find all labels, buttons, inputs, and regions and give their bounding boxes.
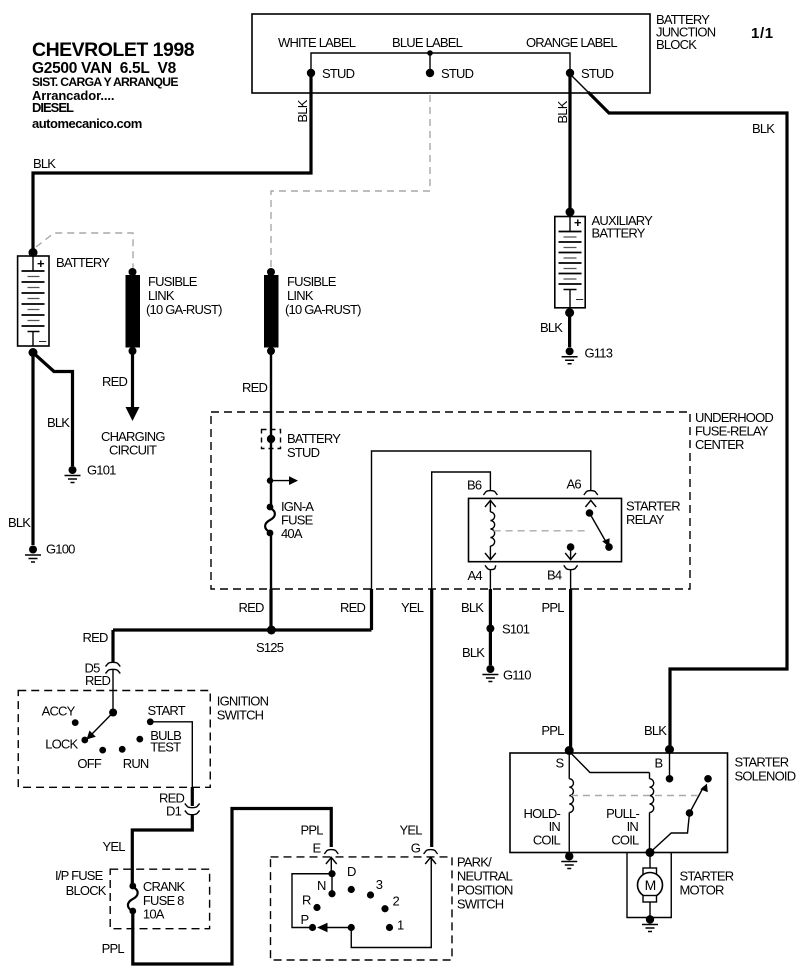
svg-text:N: N <box>317 878 326 893</box>
solenoid ground <box>561 852 577 868</box>
title text block <box>32 39 195 131</box>
starter motor enclosure <box>627 853 671 918</box>
ignition switch internals <box>42 670 186 772</box>
solenoid contact B <box>666 752 674 783</box>
wire from START contact <box>150 722 192 788</box>
svg-text:RED: RED <box>239 600 264 615</box>
svg-text:G101: G101 <box>87 463 116 478</box>
wire YEL relay B6 to park/neutral G <box>401 472 490 847</box>
terminal E <box>313 841 339 865</box>
svg-text:CENTER: CENTER <box>695 437 744 452</box>
svg-text:40A: 40A <box>281 526 303 541</box>
svg-text:R: R <box>302 893 311 908</box>
svg-text:RED: RED <box>102 374 127 389</box>
svg-text:D1: D1 <box>166 804 182 819</box>
svg-text:SWITCH: SWITCH <box>217 708 264 723</box>
wire RED to charging circuit with arrow <box>101 353 165 458</box>
svg-text:BLK: BLK <box>461 600 484 615</box>
svg-text:B: B <box>655 756 663 771</box>
svg-text:M: M <box>645 877 656 893</box>
wire BLK from orange stud to auxiliary battery <box>555 75 570 212</box>
underhood fuse-relay center box <box>211 410 773 589</box>
svg-text:RED: RED <box>242 380 267 395</box>
wire YEL D1 to crank fuse <box>103 815 193 884</box>
ground G101 <box>65 463 117 483</box>
wire RED ign-a fuse to S125 <box>239 534 272 630</box>
svg-text:PPL: PPL <box>541 723 564 738</box>
starter solenoid box <box>510 753 796 853</box>
gray dashed link battery to fusible link 1 <box>36 233 133 268</box>
wire BLK battery negative to G100 <box>8 348 38 545</box>
svg-text:B6: B6 <box>467 478 482 493</box>
park/neutral position switch box <box>271 855 514 961</box>
node B terminal <box>644 723 674 771</box>
svg-text:COIL: COIL <box>611 833 639 848</box>
wire RED relay A6 feed <box>340 451 591 630</box>
svg-text:BLK: BLK <box>752 121 775 136</box>
battery junction block <box>252 12 716 93</box>
svg-text:BLK: BLK <box>644 723 667 738</box>
svg-text:A4: A4 <box>468 568 483 583</box>
svg-text:RED: RED <box>340 600 365 615</box>
svg-text:STUD: STUD <box>441 66 474 81</box>
svg-text:COIL: COIL <box>533 833 561 848</box>
starter motor ground <box>642 915 658 931</box>
starter motor M <box>638 853 734 920</box>
terminal G <box>400 823 438 865</box>
fusible link 1 (10 GA-RUST) <box>126 268 223 355</box>
svg-text:E: E <box>313 841 322 856</box>
I/P fuse block box <box>55 868 210 929</box>
svg-text:BATTERY: BATTERY <box>592 226 646 241</box>
node blue label STUD <box>426 66 474 81</box>
svg-text:CRANK: CRANK <box>143 879 186 894</box>
svg-text:G100: G100 <box>46 542 75 557</box>
wire BLK battery negative branch to G101 <box>34 354 73 467</box>
splice S101 <box>486 622 529 637</box>
svg-text:RED: RED <box>83 630 108 645</box>
svg-text:MOTOR: MOTOR <box>680 883 725 898</box>
pull-in coil <box>569 752 654 853</box>
wire BLK relay A4 to S101 <box>461 570 490 628</box>
relay coil <box>485 500 496 559</box>
svg-text:PPL: PPL <box>542 600 565 615</box>
svg-text:CIRCUIT: CIRCUIT <box>109 443 157 458</box>
relay terminal A6 <box>567 477 598 507</box>
svg-text:PARK/: PARK/ <box>457 855 492 870</box>
splice S125 <box>83 626 372 656</box>
svg-text:BLK: BLK <box>8 515 31 530</box>
svg-text:YEL: YEL <box>103 839 126 854</box>
gray dashed link blue stud to fusible link 2 <box>271 95 430 268</box>
svg-text:STARTER: STARTER <box>680 869 734 884</box>
svg-text:(10 GA-RUST): (10 GA-RUST) <box>146 302 222 317</box>
svg-text:I/P FUSE: I/P FUSE <box>55 868 104 883</box>
svg-text:STUD: STUD <box>287 445 320 460</box>
battery stud connector <box>262 430 342 461</box>
svg-text:BLOCK: BLOCK <box>656 37 697 52</box>
svg-text:PPL: PPL <box>102 941 125 956</box>
svg-text:LOCK: LOCK <box>45 737 78 752</box>
battery B1 <box>18 248 111 348</box>
wire PPL crank fuse to park/neutral E <box>102 809 332 965</box>
svg-text:ORANGE LABEL: ORANGE LABEL <box>526 35 617 50</box>
svg-text:RELAY: RELAY <box>626 512 665 527</box>
svg-text:OFF: OFF <box>77 756 101 771</box>
svg-text:S: S <box>556 756 565 771</box>
svg-text:(10 GA-RUST): (10 GA-RUST) <box>285 302 361 317</box>
svg-text:D: D <box>347 864 356 879</box>
svg-text:SWITCH: SWITCH <box>457 897 504 912</box>
svg-text:BLK: BLK <box>295 99 310 122</box>
relay terminal A4 <box>468 565 496 583</box>
fusible link 2 (10 GA-RUST) <box>264 268 361 355</box>
wire BLK aux battery to G113 <box>540 308 574 347</box>
svg-text:BLK: BLK <box>555 100 570 123</box>
svg-text:RUN: RUN <box>123 756 149 771</box>
fuse IGN-A 40A <box>265 499 314 541</box>
connector D1 <box>159 787 200 819</box>
relay switch <box>586 509 613 551</box>
wire BLK from white stud to battery <box>33 75 311 250</box>
svg-text:WHITE LABEL: WHITE LABEL <box>278 35 356 50</box>
node white label STUD <box>307 66 355 81</box>
auxiliary battery <box>555 208 653 308</box>
svg-text:G: G <box>411 841 421 856</box>
svg-text:RED: RED <box>85 673 110 688</box>
connector D5 <box>85 630 121 688</box>
svg-text:LINK: LINK <box>148 288 175 303</box>
solenoid switch arm <box>650 775 712 853</box>
svg-text:LINK: LINK <box>287 288 314 303</box>
node S terminal <box>556 746 574 771</box>
park/neutral internals <box>292 857 431 947</box>
fuse CRANK FUSE 8 10A <box>128 879 186 922</box>
svg-text:1/1: 1/1 <box>751 25 774 42</box>
svg-text:ACCY: ACCY <box>42 704 76 719</box>
svg-text:10A: 10A <box>143 907 165 922</box>
svg-text:G110: G110 <box>503 668 531 683</box>
svg-text:PPL: PPL <box>301 823 324 838</box>
svg-text:BLOCK: BLOCK <box>66 883 107 898</box>
ground G100 <box>25 542 75 563</box>
svg-text:SOLENOID: SOLENOID <box>735 769 796 784</box>
svg-text:S125: S125 <box>256 640 284 655</box>
svg-text:2: 2 <box>393 894 400 909</box>
ground G113 <box>562 346 613 364</box>
wire BLK S101 to G110 <box>462 629 490 666</box>
svg-text:STUD: STUD <box>322 66 355 81</box>
node with arrow tap <box>267 476 298 485</box>
ground G110 <box>482 665 531 683</box>
svg-text:BLK: BLK <box>462 645 485 660</box>
relay terminal B4 <box>547 543 578 582</box>
svg-text:3: 3 <box>376 877 383 892</box>
svg-text:B4: B4 <box>547 568 562 583</box>
svg-text:BLK: BLK <box>540 320 563 335</box>
svg-text:BLK: BLK <box>47 415 70 430</box>
solenoid internal dashed link <box>571 795 698 797</box>
svg-text:DIESEL: DIESEL <box>32 100 74 115</box>
hold-in coil <box>524 753 574 853</box>
svg-text:YEL: YEL <box>400 823 423 838</box>
wire PPL relay B4 to solenoid S <box>541 570 570 750</box>
svg-text:P: P <box>301 912 309 927</box>
svg-text:1: 1 <box>397 918 404 933</box>
svg-text:automecanico.com: automecanico.com <box>32 116 142 131</box>
svg-text:BLK: BLK <box>33 156 56 171</box>
svg-text:S101: S101 <box>502 622 530 637</box>
node orange label STUD <box>566 66 614 81</box>
svg-text:POSITION: POSITION <box>457 883 513 898</box>
svg-text:IGNITION: IGNITION <box>217 694 269 709</box>
svg-text:BLUE LABEL: BLUE LABEL <box>392 35 463 50</box>
starter relay box <box>469 498 681 561</box>
relay terminal B6 <box>467 478 497 508</box>
svg-text:BATTERY: BATTERY <box>287 431 341 446</box>
svg-text:G113: G113 <box>585 346 613 361</box>
svg-text:FUSIBLE: FUSIBLE <box>287 274 337 289</box>
svg-text:YEL: YEL <box>401 600 424 615</box>
svg-text:START: START <box>148 703 186 718</box>
relay internal dashed link <box>494 530 585 532</box>
svg-text:NEUTRAL: NEUTRAL <box>457 869 513 884</box>
bus bar wire inside junction block <box>311 50 570 73</box>
svg-text:STUD: STUD <box>581 66 614 81</box>
svg-text:BATTERY: BATTERY <box>56 255 110 270</box>
wire RED fusible link 2 to battery stud <box>242 353 271 507</box>
ignition switch box <box>18 691 268 788</box>
svg-text:A6: A6 <box>567 477 582 492</box>
svg-text:STARTER: STARTER <box>735 755 789 770</box>
wire BLK from orange stud to starter solenoid B <box>570 74 787 750</box>
svg-text:SIST. CARGA Y ARRANQUE: SIST. CARGA Y ARRANQUE <box>32 75 178 89</box>
svg-text:TEST: TEST <box>150 740 181 755</box>
node solenoid to motor junction <box>646 848 655 857</box>
svg-text:FUSIBLE: FUSIBLE <box>148 274 198 289</box>
svg-text:CHEVROLET 1998: CHEVROLET 1998 <box>32 39 195 61</box>
